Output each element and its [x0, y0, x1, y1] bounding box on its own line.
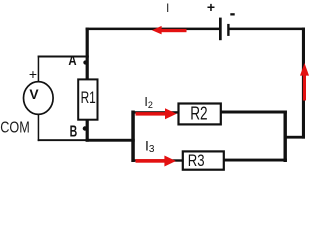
svg-text:R1: R1	[81, 88, 96, 107]
svg-text:B: B	[70, 123, 78, 140]
wire branch to R2 left	[133, 111, 179, 113]
wire left vertical (top corner through node A, R1, node B)	[86, 28, 89, 142]
resistor R2	[179, 104, 221, 125]
wire right connector horizontal	[284, 136, 306, 139]
wire top left segment (node A corner to battery + plate)	[86, 28, 220, 31]
wire right vertical	[302, 28, 305, 139]
node B junction dot	[83, 126, 87, 130]
battery cell (left long + plate, right short - plate)	[219, 18, 230, 41]
wire branch split vertical	[131, 111, 135, 163]
current arrow I3 (red, pointing right)	[136, 156, 176, 167]
wire branch to R3 left	[133, 159, 184, 161]
wire right junction vertical	[284, 111, 287, 163]
voltmeter V1	[24, 82, 54, 115]
resistor R1	[78, 79, 97, 119]
wire R3 right to junction	[223, 159, 287, 162]
wire from node B horizontal to branch split	[86, 139, 135, 142]
label - (battery)	[230, 13, 234, 15]
svg-text:+: +	[207, 0, 215, 15]
svg-text:+: +	[29, 66, 37, 82]
node A junction dot	[83, 60, 87, 64]
svg-text:COM: COM	[0, 119, 30, 136]
current arrow I (red, pointing left on top wire)	[152, 26, 187, 35]
svg-text:V: V	[29, 87, 39, 102]
svg-text:R3: R3	[188, 151, 205, 170]
wire voltmeter top stub vertical	[38, 56, 40, 83]
wire R2 right to junction	[220, 111, 287, 114]
wire voltmeter top horizontal to node A	[38, 56, 89, 58]
wire voltmeter bottom horizontal to node B leg	[38, 139, 89, 141]
svg-text:A: A	[68, 53, 76, 68]
wire voltmeter bottom stub vertical	[38, 114, 40, 141]
current arrow I2 (red, pointing right)	[136, 108, 177, 119]
svg-text:I: I	[166, 1, 169, 15]
current arrow on right vertical (red, pointing up)	[300, 63, 309, 101]
svg-text:R2: R2	[190, 104, 207, 124]
resistor R3	[183, 151, 224, 170]
wire top right segment (battery - plate to right top corner)	[229, 28, 305, 31]
